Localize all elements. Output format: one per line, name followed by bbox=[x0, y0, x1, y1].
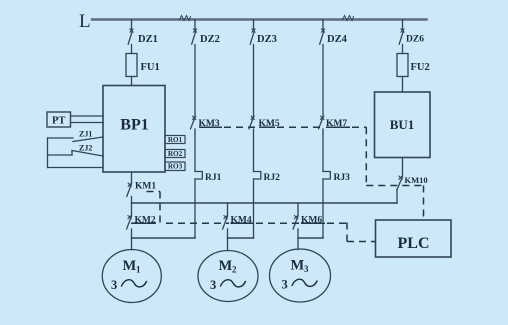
svg-text:2: 2 bbox=[232, 265, 237, 275]
svg-text:ZJ2: ZJ2 bbox=[79, 144, 92, 153]
svg-text:RO1: RO1 bbox=[168, 136, 183, 144]
svg-text:PLC: PLC bbox=[398, 235, 430, 252]
svg-text:PT: PT bbox=[52, 116, 65, 127]
svg-text:FU2: FU2 bbox=[411, 62, 430, 73]
svg-text:RO3: RO3 bbox=[168, 163, 183, 171]
svg-text:1: 1 bbox=[136, 265, 141, 275]
svg-text:DZ6: DZ6 bbox=[406, 35, 424, 45]
svg-text:3: 3 bbox=[210, 278, 216, 292]
svg-text:KM10: KM10 bbox=[405, 175, 428, 185]
svg-text:KM6: KM6 bbox=[301, 216, 322, 226]
svg-text:KM7: KM7 bbox=[326, 119, 347, 129]
svg-text:FU1: FU1 bbox=[141, 62, 160, 73]
svg-text:DZ4: DZ4 bbox=[327, 34, 348, 45]
svg-text:RO2: RO2 bbox=[168, 150, 183, 158]
svg-text:RJ3: RJ3 bbox=[334, 173, 351, 183]
svg-text:M: M bbox=[123, 258, 137, 274]
svg-text:M: M bbox=[291, 258, 305, 274]
svg-text:KM3: KM3 bbox=[199, 119, 220, 129]
svg-text:DZ1: DZ1 bbox=[138, 34, 158, 45]
svg-text:RJ1: RJ1 bbox=[205, 173, 222, 183]
svg-text:BP1: BP1 bbox=[120, 117, 148, 134]
svg-text:DZ3: DZ3 bbox=[257, 34, 277, 45]
svg-text:RJ2: RJ2 bbox=[264, 173, 281, 183]
svg-text:3: 3 bbox=[282, 278, 288, 292]
svg-text:KM4: KM4 bbox=[231, 216, 252, 226]
svg-text:3: 3 bbox=[304, 264, 309, 274]
svg-text:KM2: KM2 bbox=[135, 216, 156, 226]
svg-text:KM1: KM1 bbox=[135, 182, 156, 192]
svg-text:L: L bbox=[79, 11, 91, 32]
svg-text:KM5: KM5 bbox=[259, 119, 280, 129]
svg-text:M: M bbox=[219, 258, 233, 274]
svg-text:BU1: BU1 bbox=[390, 117, 415, 132]
svg-text:3: 3 bbox=[111, 278, 117, 292]
svg-text:ZJ1: ZJ1 bbox=[79, 130, 92, 139]
svg-text:DZ2: DZ2 bbox=[200, 34, 220, 45]
